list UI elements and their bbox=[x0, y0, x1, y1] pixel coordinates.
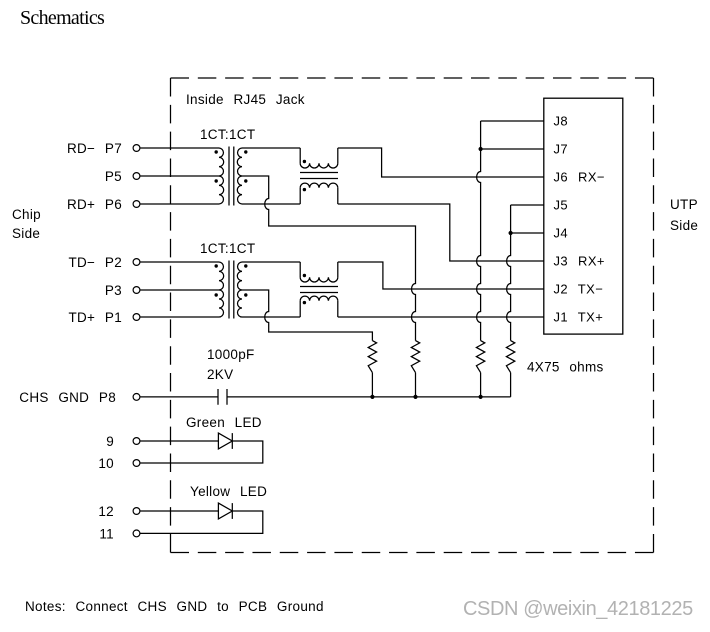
wire J5/J4 to resistor R4 bbox=[507, 205, 511, 341]
wire J7 tap bbox=[481, 148, 544, 150]
wire T2 secondary center tap to resistor R1 bbox=[242, 290, 372, 341]
wire P7 to transformer bbox=[140, 147, 219, 149]
choke L1 core bbox=[300, 173, 338, 179]
wire diode D2 to 11 bbox=[140, 511, 263, 533]
svg-text:J7: J7 bbox=[554, 142, 569, 157]
wire P1 to transformer bbox=[140, 316, 219, 318]
choke L2 winding A polarity dot bbox=[303, 274, 306, 277]
pin 12 terminal bbox=[133, 508, 140, 515]
svg-text:J1 TX+: J1 TX+ bbox=[554, 310, 604, 325]
svg-text:Side: Side bbox=[12, 226, 40, 241]
resistor R3 bottom lead bbox=[480, 373, 482, 397]
svg-text:J8: J8 bbox=[554, 114, 569, 129]
transformer T2 secondary polarity dots bbox=[244, 264, 247, 267]
pin P6 terminal bbox=[133, 201, 140, 208]
transformer T2 core bbox=[229, 261, 234, 319]
pin P5 terminal bbox=[133, 173, 140, 180]
transformer T1 core bbox=[229, 147, 234, 206]
svg-text:CHS GND P8: CHS GND P8 bbox=[19, 390, 116, 405]
svg-text:1CT:1CT: 1CT:1CT bbox=[200, 241, 255, 256]
svg-text:Yellow LED: Yellow LED bbox=[190, 484, 267, 499]
svg-text:11: 11 bbox=[99, 526, 114, 541]
resistor R2 bottom lead bbox=[415, 373, 417, 397]
wire P8 to capacitor C1 bbox=[140, 396, 218, 398]
resistor R3 bbox=[476, 341, 484, 373]
wire T2 secondary bottom to choke L2 bbox=[242, 316, 300, 318]
svg-text:J2 TX−: J2 TX− bbox=[554, 282, 604, 297]
diode D1 (Green LED) bbox=[218, 433, 232, 449]
svg-text:RD+ P6: RD+ P6 bbox=[67, 197, 122, 212]
pin 11 terminal bbox=[133, 530, 140, 537]
capacitor C1 plates bbox=[218, 389, 227, 405]
svg-text:P5: P5 bbox=[105, 169, 122, 184]
wire T1 secondary bottom to choke L1 bbox=[242, 203, 300, 205]
wire 9 to diode D1 bbox=[140, 440, 219, 442]
svg-text:J5: J5 bbox=[554, 198, 569, 213]
transformer T2 secondary winding bbox=[237, 262, 242, 290]
choke L1 winding A polarity dot bbox=[303, 160, 306, 163]
svg-text:2KV: 2KV bbox=[207, 367, 233, 382]
wire choke L2 B to J1 TX+ bbox=[338, 316, 544, 318]
svg-text:Chip: Chip bbox=[12, 207, 41, 222]
svg-text:1000pF: 1000pF bbox=[207, 347, 255, 362]
wire J8/J7 to resistor R3 bbox=[477, 121, 481, 341]
wire P3 to transformer bbox=[140, 289, 219, 291]
wire choke L2 A to J2 TX- bbox=[338, 262, 544, 289]
wire J4 tap bbox=[511, 232, 544, 234]
dashed RJ45 jack boundary bbox=[171, 77, 654, 79]
svg-text:TD− P2: TD− P2 bbox=[68, 255, 122, 270]
svg-text:10: 10 bbox=[98, 456, 114, 471]
wire T1 secondary center tap to resistor R2 bbox=[242, 176, 416, 341]
svg-text:Notes: Connect CHS GND to PCB: Notes: Connect CHS GND to PCB Ground bbox=[25, 599, 324, 614]
wire diode D1 to 10 bbox=[140, 441, 263, 463]
transformer T2 primary polarity dots bbox=[215, 264, 218, 267]
resistor R4 bottom lead bbox=[510, 373, 512, 397]
svg-text:Green LED: Green LED bbox=[186, 415, 262, 430]
svg-text:P3: P3 bbox=[105, 283, 122, 298]
svg-text:J6 RX−: J6 RX− bbox=[554, 170, 605, 185]
svg-text:4X75 ohms: 4X75 ohms bbox=[527, 360, 604, 375]
wire T1 secondary top to choke L1 bbox=[242, 147, 300, 149]
svg-text:CSDN @weixin_42181225: CSDN @weixin_42181225 bbox=[463, 598, 693, 620]
junction dots on ground rail bbox=[370, 395, 374, 399]
junction dot J4 tap bbox=[509, 231, 513, 235]
svg-text:Schematics: Schematics bbox=[20, 7, 105, 29]
svg-text:TD+ P1: TD+ P1 bbox=[68, 310, 122, 325]
svg-text:RD− P7: RD− P7 bbox=[67, 141, 122, 156]
svg-text:9: 9 bbox=[106, 434, 114, 449]
wire ground rail C1 to resistors bbox=[227, 396, 511, 398]
pin 10 terminal bbox=[133, 460, 140, 467]
wire choke L1 A to J6 RX- bbox=[338, 148, 544, 177]
pin P2 terminal bbox=[133, 259, 140, 266]
transformer T1 primary winding bbox=[219, 148, 224, 176]
resistor R1 bottom lead bbox=[371, 373, 373, 397]
wire T2 secondary top to choke L2 bbox=[242, 261, 300, 263]
svg-text:J3 RX+: J3 RX+ bbox=[554, 254, 605, 269]
wire P2 to transformer bbox=[140, 261, 219, 263]
svg-text:UTP: UTP bbox=[670, 197, 698, 212]
svg-text:J4: J4 bbox=[554, 226, 569, 241]
pin P1 terminal bbox=[133, 314, 140, 321]
wire 12 to diode D2 bbox=[140, 510, 219, 512]
choke L2 core bbox=[300, 287, 338, 293]
transformer T1 secondary winding bbox=[237, 148, 242, 176]
choke L2 winding A bbox=[299, 262, 301, 277]
wire P5 to transformer bbox=[140, 175, 219, 177]
wire P6 to transformer bbox=[140, 203, 219, 205]
choke L2 winding B bbox=[299, 301, 301, 317]
svg-text:Inside RJ45 Jack: Inside RJ45 Jack bbox=[186, 92, 305, 107]
transformer T1 primary polarity dots bbox=[215, 150, 218, 153]
diode D2 (Yellow LED) bbox=[218, 503, 232, 519]
svg-text:12: 12 bbox=[98, 504, 114, 519]
pin P3 terminal bbox=[133, 287, 140, 294]
resistor R2 bbox=[411, 341, 419, 373]
RJ45 pin box bbox=[544, 98, 623, 334]
transformer T2 primary winding bbox=[219, 262, 224, 290]
wire J5 tap bbox=[511, 204, 544, 206]
pin P8 terminal bbox=[133, 394, 140, 401]
pin P7 terminal bbox=[133, 145, 140, 152]
wire choke L1 B to J3 RX+ bbox=[338, 204, 544, 261]
choke L2 winding B polarity dot bbox=[303, 301, 306, 304]
svg-text:Side: Side bbox=[670, 218, 698, 233]
choke L1 winding B bbox=[299, 188, 301, 204]
wire J8 tap bbox=[481, 120, 544, 122]
svg-text:1CT:1CT: 1CT:1CT bbox=[200, 127, 255, 142]
resistor R4 bbox=[506, 341, 514, 373]
resistor R1 bbox=[368, 341, 376, 373]
choke L1 winding B polarity dot bbox=[303, 188, 306, 191]
junction dot J7 tap bbox=[479, 147, 483, 151]
transformer T1 secondary polarity dots bbox=[244, 150, 247, 153]
choke L1 winding A bbox=[299, 148, 301, 163]
pin 9 terminal bbox=[133, 438, 140, 445]
